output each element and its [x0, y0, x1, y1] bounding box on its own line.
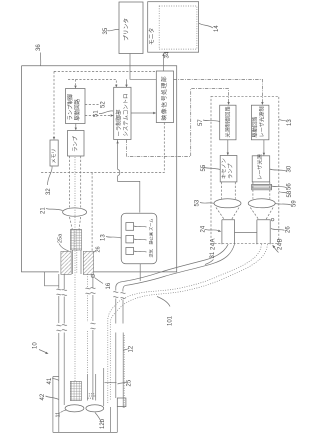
label 31	[205, 251, 216, 264]
svg-text:42: 42	[40, 393, 46, 400]
wire driver2 to lamp2	[263, 140, 265, 155]
svg-text:51: 51	[94, 110, 100, 117]
operation buttons box (rounded)	[121, 213, 157, 264]
filter (striped) under lamp2	[252, 184, 272, 189]
light guide cable second line (dotted)	[110, 244, 267, 400]
svg-text:ズーム: ズーム	[148, 219, 155, 231]
CCD grid block at tip	[70, 381, 81, 400]
svg-text:34: 34	[165, 51, 171, 58]
bus line 2 (dashed)	[68, 79, 116, 86]
video signal box (映像信号処理回路)	[156, 71, 173, 123]
button leaders and tiny labels	[134, 226, 147, 252]
svg-text:駆動回路: 駆動回路	[251, 116, 259, 138]
image/lamp control box	[66, 89, 86, 124]
label 53 (lens1)	[195, 199, 215, 206]
svg-text:ランプ制御: ランプ制御	[66, 93, 74, 120]
label 26 (signal line)	[94, 246, 102, 252]
connector 1	[222, 220, 235, 244]
stub below buttons box	[139, 264, 141, 281]
svg-text:32: 32	[46, 188, 52, 195]
svg-text:25a: 25a	[58, 233, 64, 243]
label 21 (lens)	[41, 207, 63, 214]
label 26	[271, 226, 292, 233]
label 51	[94, 110, 114, 117]
optical axis	[74, 157, 76, 381]
cable outer wall (solid)	[123, 244, 235, 318]
fiber cable curve C1 (dotted, from connector2)	[108, 244, 262, 403]
svg-text:36: 36	[36, 44, 42, 51]
svg-text:14: 14	[214, 25, 220, 32]
insertion tube walls	[58, 274, 60, 432]
light beams lamp1 to lens1 (dashed)	[222, 182, 236, 199]
wire controller to light source (long dashed)	[126, 89, 228, 157]
label 55 (lamp row2 box1)	[201, 164, 220, 171]
small rect at light guide exit	[117, 398, 126, 407]
svg-text:30: 30	[287, 165, 293, 172]
fiber channel between housings	[73, 250, 82, 274]
label 14 (monitor)	[199, 23, 220, 32]
svg-text:26: 26	[96, 246, 102, 252]
svg-text:24B: 24B	[278, 238, 284, 250]
label 52	[85, 101, 107, 108]
button 3	[126, 248, 134, 255]
light cone lens1 to connector1	[216, 208, 239, 220]
svg-text:24: 24	[201, 225, 207, 232]
light cone lens2 to connector2	[250, 208, 273, 220]
label 13 (light source unit)	[279, 119, 293, 126]
svg-text:12: 12	[129, 345, 135, 352]
fiber bundle dots at tip	[87, 374, 95, 401]
label 58	[279, 190, 293, 197]
label 57 (driver box1)	[198, 119, 220, 126]
svg-text:59: 59	[292, 200, 298, 207]
right channel verticals	[103, 368, 105, 406]
light source driver box 1	[220, 105, 236, 140]
svg-text:送気: 送気	[148, 249, 155, 257]
svg-text:システムコントロ: システムコントロ	[123, 94, 130, 137]
wire bus to memory	[53, 71, 55, 138]
svg-text:52: 52	[101, 101, 107, 108]
label 24 (connector assembly)	[201, 225, 222, 232]
housing hatch left	[61, 251, 71, 274]
svg-text:56: 56	[287, 183, 293, 190]
svg-text:メモリ: メモリ	[52, 148, 58, 163]
collar step on cable at box bottom	[45, 272, 59, 286]
printer box	[119, 2, 143, 54]
svg-text:25: 25	[127, 379, 133, 386]
housing hatch right	[83, 251, 93, 274]
light source unit dashed box	[211, 96, 279, 243]
svg-text:26: 26	[286, 226, 292, 233]
svg-text:光源制御回路: 光源制御回路	[224, 106, 232, 138]
svg-text:モニタ: モニタ	[148, 27, 156, 45]
illumination lens at tip	[86, 405, 104, 412]
wire video box to laser driver (dash-dot)	[174, 79, 263, 103]
tie bar between connectors	[235, 232, 257, 234]
lamp box	[68, 131, 85, 157]
label 101 (cable)	[157, 297, 174, 327]
wire branch down to scope connector	[91, 173, 93, 253]
connector 2	[257, 220, 270, 244]
svg-text:11: 11	[56, 412, 62, 418]
wire control box to lamp box	[75, 124, 77, 130]
wire controller to video box	[131, 112, 155, 114]
beams lamp to lens (dash-dot)	[70, 156, 81, 208]
label 10 with arrow	[33, 342, 49, 354]
wire video box to monitor (arrow up)	[163, 56, 165, 71]
svg-text:レーザ光源: レーザ光源	[256, 153, 264, 180]
objective lens at tip	[65, 405, 84, 412]
light guide dotted inside tube	[87, 274, 89, 374]
svg-text:13: 13	[287, 119, 293, 126]
label 24B arrow	[272, 238, 283, 252]
label 16 + arrow	[91, 274, 112, 289]
monitor screen (dotted)	[159, 6, 197, 49]
fiber cable curve C2 (solid, from connector1)	[116, 244, 228, 398]
tip outer wall left	[53, 377, 59, 433]
label 12 (right line)	[123, 345, 134, 352]
label 32 (memory)	[46, 166, 52, 195]
svg-text:58: 58	[287, 190, 293, 197]
svg-text:キセノン: キセノン	[221, 158, 228, 179]
joint bar on light guide channel	[105, 382, 117, 384]
light guide end block (grid)	[71, 229, 82, 250]
svg-text:駆動回路: 駆動回路	[73, 98, 81, 120]
svg-text:映像信号処理部: 映像信号処理部	[160, 76, 168, 121]
label 25a	[58, 233, 69, 251]
label 56 (filter)	[272, 183, 293, 190]
light source driver box 2	[251, 105, 269, 140]
svg-text:24A: 24A	[211, 238, 217, 250]
outer box: scope body / processor unit	[22, 66, 177, 272]
svg-text:53: 53	[195, 199, 201, 206]
svg-text:31: 31	[210, 251, 216, 258]
label 30 (lamp2)	[270, 165, 293, 172]
label 41	[47, 377, 59, 384]
button 1	[126, 223, 134, 231]
svg-text:12b: 12b	[100, 418, 106, 429]
tip bottom face	[53, 431, 117, 433]
label 24A arrow	[211, 238, 217, 250]
arrow bus2 into lamp control box	[75, 79, 77, 87]
label 59 (lens R)	[275, 200, 297, 207]
memory box	[50, 140, 58, 166]
label 13 (buttons box)	[101, 234, 122, 241]
svg-text:10: 10	[33, 342, 39, 349]
label 36 (outer box)	[36, 44, 42, 66]
system controller tall box	[114, 87, 131, 139]
bus line 1 (dashed)	[54, 70, 156, 72]
wire lamp control to system controller	[85, 115, 113, 117]
wire driver1 to lamp1	[227, 140, 229, 155]
label 11 (objective)	[56, 410, 68, 418]
cone lens to light guide end	[70, 217, 81, 229]
condenser lens 2	[248, 199, 275, 208]
svg-text:プリンタ: プリンタ	[122, 18, 130, 41]
light beams lamp2/filter to lens2	[253, 182, 270, 199]
condenser lens 1	[214, 199, 241, 208]
wire controller to operation buttons box	[118, 140, 140, 213]
svg-text:レーザ光源制: レーザ光源制	[258, 106, 266, 137]
svg-text:101: 101	[168, 315, 174, 326]
svg-text:ランプ: ランプ	[227, 163, 234, 179]
screw circle on connector2	[271, 218, 274, 221]
lamp box 2 (laser)	[252, 156, 270, 182]
label 42	[40, 393, 59, 400]
lamp box 1 (xenon)	[220, 156, 237, 182]
label 12b (illumination)	[95, 413, 106, 430]
wire printer to video box	[127, 54, 157, 87]
svg-text:ーラ制御部: ーラ制御部	[115, 109, 123, 137]
wire video box to CCD line (down, left, down)	[41, 123, 165, 173]
svg-text:静止画: 静止画	[148, 232, 155, 245]
scope lens in body	[63, 208, 87, 216]
svg-text:13: 13	[101, 234, 107, 241]
button 2	[126, 236, 134, 243]
svg-text:16: 16	[106, 282, 112, 289]
label 25	[118, 379, 133, 386]
break marks on tube	[57, 325, 62, 331]
svg-text:ランプ: ランプ	[72, 135, 79, 152]
label 35 (printer)	[103, 27, 119, 34]
svg-text:21: 21	[41, 207, 47, 214]
monitor box	[148, 2, 199, 53]
